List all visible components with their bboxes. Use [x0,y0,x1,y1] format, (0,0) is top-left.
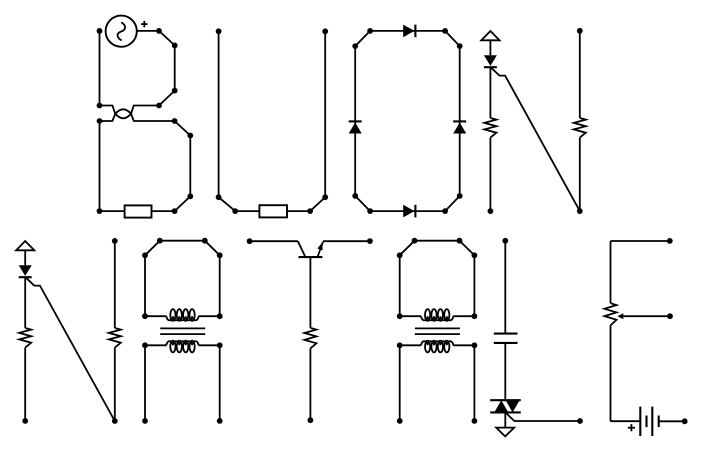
wire bottom to resistor [100,210,125,212]
antenna symbol (open triangle) [481,31,499,40]
node B bottom-left junction [97,208,103,214]
node junction [307,208,313,214]
node N1 bottom-left [488,208,494,214]
diode D4 (bottom, pointing right) [403,205,415,218]
wire resistor to junction [152,210,175,212]
transformer T2 primary winding [421,309,453,321]
wire N2 left leg upper [24,277,26,328]
node A1 bottom-right [217,418,223,424]
node L foot-right [577,418,583,424]
wire N1 left leg lower [489,138,491,212]
node A2 bottom-left [397,418,403,424]
capacitor C1 [494,334,518,343]
wire battery to foot [659,420,685,422]
diode D3 (right, pointing up) [453,121,466,133]
wire diagonal corner [310,197,325,211]
wire A2 right upper vertical [473,255,475,316]
wire diagonal corner SW [355,196,370,211]
wire triac gate to foot [506,413,580,421]
wire A2 apex bar [415,240,460,242]
wire B left vertical (bottom loop) [99,121,101,211]
resistor R2 (box style) [259,205,287,217]
transformer T1 secondary winding [167,341,199,353]
wire diagonal NW [400,241,415,256]
node secondary right [217,342,223,348]
node corner NW [397,252,403,258]
diode D6 (pointing down) [19,265,32,277]
node A1 apex-right [202,238,208,244]
node L top [502,238,508,244]
node O bottom-right [442,208,448,214]
node O top-left [367,28,373,34]
wire T stem upper [309,257,311,328]
wire O top bar [370,30,445,32]
wire N1 left leg upper [489,67,491,118]
wire T bar right segment [323,240,370,242]
node E middle-right [667,313,673,319]
wire N2 diagonal [26,278,115,421]
node B top-right junction [156,28,162,34]
wire from secondary winding [199,344,220,346]
wire diagonal corner [175,121,191,136]
node corner NW [352,43,358,49]
wire A1 right upper vertical [219,255,221,316]
wire diagonal corner [219,197,236,211]
wire antenna stem [489,40,491,55]
wire A2 right lower vertical [473,345,475,421]
node A1 bottom-left [142,418,148,424]
wire N2 left leg lower [24,348,26,421]
node primary right [217,313,223,319]
node corner NE [217,252,223,258]
wire diagonal corner SE [445,196,460,211]
wire to resistor [235,210,259,212]
transformer T1 primary winding [167,309,199,321]
node N2 bottom-left [22,418,28,424]
transformer T2 core [415,328,460,334]
resistor R4 (zigzag, right leg) [574,118,586,138]
node secondary right [472,342,478,348]
wire L vertical lower [504,412,506,427]
node U top-right [322,28,328,34]
wire diagonal corner [159,31,175,46]
wire to primary winding [400,315,422,317]
node primary left [142,313,148,319]
node N2 bottom-right [112,418,118,424]
wire diagonal NE [460,241,475,256]
node corner NE [457,43,463,49]
transformer T2 secondary winding [421,341,453,353]
wire to primary winding [145,315,167,317]
diode D2 (left, pointing up) [349,121,362,133]
wire B upper-loop right vertical [174,45,176,90]
polarity plus label of V1 [141,21,147,27]
node A2 apex-right [457,238,463,244]
wire N1 right leg lower [579,138,581,212]
antenna symbol (open triangle) [16,241,34,250]
wire from primary winding [453,315,474,317]
wire to secondary winding [400,344,422,346]
wire E spine lower [610,325,612,421]
node B bottom-right junction [172,208,178,214]
node E bottom-right [682,418,688,424]
wire N2 right leg lower [114,348,116,421]
wire diagonal NE [205,241,220,256]
node corner [187,133,193,139]
wire B lower-loop right vertical [189,136,191,197]
wire N1 diagonal [491,68,580,211]
wire B left vertical (top loop) [99,31,101,106]
resistor R3 (zigzag, left leg) [484,118,496,138]
node middle-left lower junction [97,118,103,124]
node A1 apex-left [157,238,163,244]
wire U left vertical [218,31,220,197]
wire T bar left segment [250,240,298,242]
wire E bottom bar [611,420,641,422]
wire A1 right lower vertical [219,345,221,421]
wire diagonal corner NW [355,31,370,46]
wire resistor to junction [287,210,310,212]
node O top-right [442,28,448,34]
node junction [232,208,238,214]
node corner NW [142,252,148,258]
wire to secondary winding [145,344,167,346]
node T bar-left [247,238,253,244]
node A2 bottom-right [472,418,478,424]
node corner SE [457,193,463,199]
battery B1 [640,407,658,436]
wire T stem lower [309,348,311,420]
node B top-left junction [97,28,103,34]
node secondary left [142,342,148,348]
resistor R1 (box style) [125,205,152,217]
wire to crossover lower right [131,114,175,121]
wire antenna stem [24,250,26,265]
wire O bottom bar [370,210,445,212]
node corner [172,43,178,49]
node O bottom-left [367,208,373,214]
resistor R6 (zigzag, right leg) [109,328,121,348]
wire to crossover lower left [100,114,116,121]
wire A2 left upper vertical [399,255,401,316]
wire N1 right leg upper [579,31,581,118]
wire U right vertical [324,31,326,197]
crossover lamp ellipse [115,109,131,118]
wire diagonal corner NE [445,31,460,46]
node primary left [397,313,403,319]
battery plus label [628,424,635,431]
wire diagonal corner [159,91,175,106]
wire from primary winding [199,315,220,317]
wire A1 left upper vertical [144,255,146,316]
node N1 bottom-right [577,208,583,214]
ac source V1 [106,16,137,47]
triac Q2 [490,400,521,412]
node corner [172,88,178,94]
wire A1 apex bar [160,240,205,242]
node corner [187,193,193,199]
node T bottom [308,417,314,423]
wire E spine upper [610,241,612,303]
wire A2 left lower vertical [399,345,401,421]
wire from V1 to top-right [137,30,159,32]
wire diagonal NW [145,241,160,256]
resistor R5 (zigzag, left leg) [19,328,31,348]
wire O right vertical [459,46,461,196]
wire O left vertical [354,46,356,196]
diode D5 (pointing down) [484,55,497,67]
wire N2 right leg upper [114,241,116,328]
node corner [216,194,222,200]
potentiometer R8 body (zigzag) [605,303,617,325]
node middle-right lower junction [172,118,178,124]
wire to crossover upper right [131,106,159,114]
node N1 top-right [577,28,583,34]
transistor Q1 [298,241,323,257]
node middle-right upper junction [156,103,162,109]
transformer T1 core [160,328,205,334]
wire to crossover upper left [100,106,116,114]
node N2 top-right [112,238,118,244]
node secondary left [397,342,403,348]
wire L vertical upper [504,241,506,334]
wire L vertical middle [504,343,506,400]
node corner [322,194,328,200]
node T bar-right [367,238,373,244]
ground symbol (open triangle down) [496,428,514,437]
wire E top bar [611,240,670,242]
wire from secondary winding [453,344,474,346]
node corner SW [352,193,358,199]
wire diagonal corner [175,196,191,211]
node middle-left upper junction [97,103,103,109]
node A2 apex-left [412,238,418,244]
node U top-left [216,28,222,34]
potentiometer wiper arrow [617,313,670,319]
resistor R7 (zigzag) [304,328,316,349]
node primary right [472,313,478,319]
diode D1 (top, pointing right) [403,25,415,38]
node corner NE [472,252,478,258]
wire A1 left lower vertical [144,345,146,421]
node E top-right [667,238,673,244]
